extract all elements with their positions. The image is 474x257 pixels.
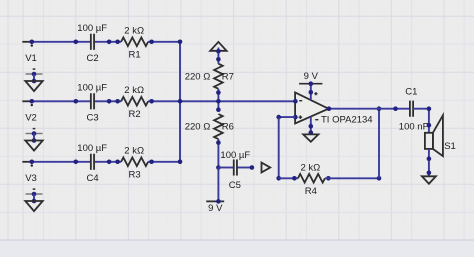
ground op-amp — [303, 134, 318, 141]
node R7 top pin — [216, 57, 221, 62]
svg-text:2 kΩ: 2 kΩ — [301, 162, 321, 173]
svg-text:100 nF: 100 nF — [399, 121, 429, 132]
node speaker corner — [427, 106, 432, 111]
capacitor C3 value label — [77, 82, 107, 93]
svg-text:R2: R2 — [129, 109, 141, 120]
node speaker top pin — [427, 123, 432, 128]
svg-text:100 µF: 100 µF — [77, 23, 107, 34]
capacitor C1 value label — [399, 121, 429, 132]
op-amp name label — [321, 114, 373, 125]
node summing top corner — [178, 40, 183, 45]
svg-text:V2: V2 — [25, 113, 37, 124]
node output tee — [377, 106, 382, 111]
capacitor C3 name label — [87, 113, 99, 124]
ground speaker — [422, 176, 436, 184]
resistor R2 — [115, 97, 154, 106]
svg-text:9 V: 9 V — [208, 203, 223, 214]
node summing bottom corner — [178, 160, 183, 165]
power 9V bottom label — [208, 203, 223, 214]
node summing middle junction — [178, 99, 183, 104]
capacitor C2 value label — [77, 23, 107, 34]
power 9V bottom bar — [206, 199, 224, 204]
source V3 label — [25, 173, 37, 184]
svg-text:R4: R4 — [305, 186, 317, 197]
resistor R1 — [115, 38, 154, 47]
wire input row V1 — [30, 41, 180, 43]
resistor R2 value label — [124, 85, 144, 96]
resistor R3 value label — [124, 146, 144, 157]
op-amp U1 body — [295, 92, 328, 123]
op-amp non-inverting input mark — [299, 115, 303, 119]
capacitor C4 — [74, 154, 112, 170]
resistor R1 name label — [129, 49, 141, 60]
power 9V top label — [304, 71, 319, 82]
source V2 terminal lead — [22, 99, 34, 106]
source V2 label — [25, 113, 37, 124]
svg-text:C3: C3 — [87, 113, 99, 124]
resistor R2 name label — [129, 109, 141, 120]
svg-text:220 Ω: 220 Ω — [185, 122, 211, 133]
wire to 9V rail bottom — [217, 168, 219, 202]
svg-text:2 kΩ: 2 kΩ — [124, 26, 144, 37]
source V3 terminal lead — [22, 160, 34, 167]
resistor R3 name label — [129, 169, 141, 180]
wire C5 branch — [218, 167, 252, 169]
wire feedback vertical right — [378, 109, 380, 179]
svg-text:220 Ω: 220 Ω — [185, 71, 211, 82]
capacitor C2 — [74, 34, 112, 50]
resistor R1 value label — [124, 26, 144, 37]
svg-text:C1: C1 — [405, 87, 417, 98]
svg-text:C4: C4 — [87, 173, 99, 184]
svg-text:2 kΩ: 2 kΩ — [124, 146, 144, 157]
wire input row V3 — [30, 161, 180, 163]
wire summing bus vertical — [179, 42, 181, 162]
wire feedback rail right — [325, 177, 379, 179]
speaker S1 label — [444, 141, 456, 152]
node V- pin — [309, 124, 314, 129]
node mid bus junction — [216, 99, 221, 104]
svg-text:V1: V1 — [25, 53, 37, 64]
op-amp V+ supply mark — [314, 92, 317, 95]
node V+ bar — [309, 81, 314, 86]
capacitor C4 name label — [87, 173, 99, 184]
source V1 terminal lead — [22, 40, 34, 47]
node feedback corner top — [276, 115, 281, 120]
wire op-amp output — [327, 106, 395, 111]
node speaker bottom pin — [427, 157, 432, 162]
wire V+ supply — [310, 84, 312, 100]
resistor R3 — [115, 158, 154, 167]
node inverting input pin — [293, 99, 298, 104]
wire feedback vertical left — [278, 117, 280, 178]
node V+ pin — [309, 90, 314, 95]
capacitor C5 name label — [229, 180, 241, 191]
speaker S1 — [425, 115, 443, 156]
ground for V2 — [25, 129, 42, 151]
node ground pin opamp — [309, 130, 314, 135]
svg-text:100 µF: 100 µF — [220, 150, 250, 161]
wire input row V2 — [30, 100, 295, 102]
svg-text:S1: S1 — [444, 141, 456, 152]
wire C1 to speaker — [413, 109, 429, 133]
svg-text:100 µF: 100 µF — [77, 143, 107, 154]
resistor R7 name label — [222, 71, 234, 82]
wire output to C1 — [394, 108, 410, 110]
svg-text:C2: C2 — [87, 53, 99, 64]
capacitor C1 name label — [405, 87, 417, 98]
svg-text:R6: R6 — [222, 122, 234, 133]
svg-text:9 V: 9 V — [304, 71, 319, 82]
op-amp V- supply mark — [315, 119, 318, 121]
node speaker ground pin — [427, 171, 432, 176]
ground for V1 — [25, 69, 42, 91]
wire non-inverting to feedback corner — [279, 116, 295, 118]
node feedback right corner — [377, 176, 382, 181]
capacitor C2 name label — [87, 53, 99, 64]
resistor R6 name label — [222, 122, 234, 133]
node non-inverting input pin — [293, 115, 298, 120]
wire V- supply to ground — [310, 117, 312, 135]
resistor R4 — [292, 174, 331, 183]
op-amp inverting input mark — [299, 100, 302, 102]
svg-text:R1: R1 — [129, 49, 141, 60]
resistor R6 — [214, 114, 223, 139]
svg-text:R3: R3 — [129, 169, 141, 180]
capacitor C5 — [234, 159, 254, 175]
capacitor C5 value label — [220, 150, 250, 161]
ground sideways at C5 — [262, 163, 271, 173]
resistor R6 value label — [185, 122, 211, 133]
svg-text:TI OPA2134: TI OPA2134 — [321, 114, 373, 125]
capacitor C4 value label — [77, 143, 107, 154]
capacitor C1 — [393, 101, 413, 117]
node R7 bottom pin — [216, 90, 221, 95]
resistor R7 value label — [185, 71, 211, 82]
power arrow VCC top — [210, 42, 226, 64]
svg-text:C5: C5 — [229, 180, 241, 191]
svg-text:2 kΩ: 2 kΩ — [124, 85, 144, 96]
node VCC base — [216, 49, 221, 54]
svg-text:V3: V3 — [25, 173, 37, 184]
resistor R7 — [214, 64, 223, 89]
svg-text:100 µF: 100 µF — [77, 82, 107, 93]
ground for V3 — [25, 189, 42, 211]
node R6 top pin — [216, 107, 221, 112]
source V1 label — [25, 53, 37, 64]
capacitor C3 — [74, 93, 112, 109]
node R6 bottom pin — [216, 140, 221, 145]
resistor R4 value label — [301, 162, 321, 173]
node feedback corner bottom — [276, 176, 281, 181]
resistor R4 name label — [305, 186, 317, 197]
wire R6 down to C5 junction — [217, 139, 219, 167]
wire R7 to bus — [217, 89, 219, 110]
svg-text:R7: R7 — [222, 71, 234, 82]
wire feedback rail left — [279, 177, 298, 179]
node C5 tee junction — [216, 165, 221, 170]
power 9V top bar — [299, 83, 322, 85]
wire speaker to ground — [428, 149, 430, 176]
